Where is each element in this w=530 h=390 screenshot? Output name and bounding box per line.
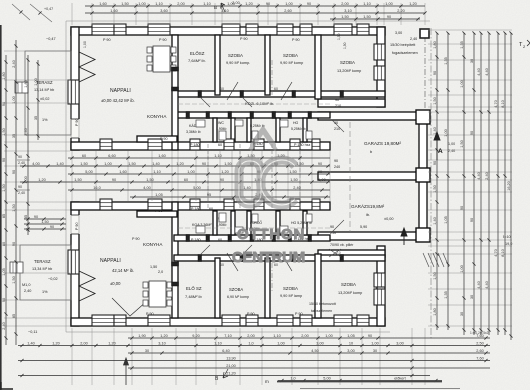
dimension column right 3 (463, 33, 465, 335)
svg-text:90: 90 (433, 71, 437, 75)
window leader upper szoba2 (281, 82, 292, 100)
svg-text:5,00: 5,00 (323, 376, 330, 380)
svg-text:fogadszelemen: fogadszelemen (392, 51, 418, 55)
svg-text:M1,0: M1,0 (22, 283, 30, 287)
svg-text:m: m (265, 379, 269, 384)
watermark house icon (250, 125, 276, 150)
svg-text:1,50: 1,50 (224, 162, 231, 166)
svg-text:90: 90 (2, 298, 6, 302)
svg-text:7,10: 7,10 (224, 334, 231, 338)
svg-text:2,00: 2,00 (232, 1, 239, 5)
projection lines bottom (71, 328, 73, 385)
svg-text:60: 60 (220, 87, 224, 91)
window top 8 (334, 24, 352, 35)
svg-text:P 180: P 180 (191, 238, 201, 242)
svg-text:2,40: 2,40 (485, 172, 489, 179)
svg-text:±0,00: ±0,00 (384, 217, 393, 221)
svg-text:90: 90 (112, 178, 116, 182)
lower kitchen closet wall (137, 211, 177, 217)
svg-text:2,40: 2,40 (24, 289, 31, 293)
corner marks top left (30, 4, 52, 22)
svg-text:KONYHA: KONYHA (143, 242, 163, 247)
svg-text:4,00: 4,00 (32, 162, 39, 166)
svg-text:1,50: 1,50 (460, 140, 464, 147)
svg-text:3,00: 3,00 (395, 31, 402, 35)
svg-text:90: 90 (330, 225, 334, 229)
dimension row top 3 (330, 18, 420, 20)
svg-text:30: 30 (145, 349, 149, 353)
dimension column right 6 (488, 33, 490, 335)
window top 9 (357, 24, 369, 35)
svg-text:ℓ=10: ℓ=10 (503, 235, 511, 239)
svg-text:−0,02: −0,02 (48, 277, 58, 281)
svg-text:előkert: előkert (394, 376, 406, 380)
window bottom 5 (246, 315, 258, 326)
lower bath wall c (247, 211, 251, 235)
svg-text:1,20: 1,20 (52, 341, 59, 345)
datum arrow bottom left (124, 358, 129, 385)
courtyard window upper c (190, 139, 200, 150)
svg-text:1,05: 1,05 (155, 193, 162, 197)
svg-text:P 180: P 180 (191, 207, 201, 211)
svg-text:30: 30 (470, 59, 474, 63)
svg-text:4,40: 4,40 (485, 281, 489, 288)
svg-text:P 180: P 180 (190, 143, 200, 147)
courtyard window upper f (290, 139, 300, 150)
svg-text:1,00: 1,00 (138, 2, 145, 6)
lower terrace outline (20, 245, 71, 300)
upper bath wall d (276, 118, 280, 142)
svg-text:1,00: 1,00 (34, 78, 38, 85)
window bottom 7 (300, 315, 312, 326)
svg-text:1,10: 1,10 (153, 170, 160, 174)
dimension column right 5 (480, 33, 482, 335)
svg-text:3,10: 3,10 (221, 9, 228, 13)
svg-text:4,40: 4,40 (477, 68, 481, 75)
lower corridor bottom wall (174, 255, 385, 261)
svg-text:1,20: 1,20 (176, 162, 183, 166)
svg-text:SZOBA: SZOBA (228, 53, 243, 58)
bathroom fixtures lower unit (196, 226, 205, 233)
column centerline upper szoba2 (271, 60, 273, 100)
svg-text:1,35: 1,35 (460, 41, 464, 48)
svg-text:1,40: 1,40 (243, 186, 250, 190)
svg-text:1,00: 1,00 (385, 2, 392, 6)
door swing corridor upper a (200, 97, 210, 107)
garage pilaster mid (416, 168, 430, 182)
garage axis dashed (349, 122, 351, 232)
svg-text:2,40: 2,40 (18, 161, 25, 165)
north wall lower unit (71, 202, 330, 210)
svg-text:NAPPALI: NAPPALI (100, 258, 121, 264)
svg-text:−0,11: −0,11 (28, 330, 37, 334)
svg-text:2,20: 2,20 (397, 9, 404, 13)
svg-text:2,00: 2,00 (341, 2, 348, 6)
svg-text:2,60: 2,60 (284, 9, 291, 13)
dimension row bottom 2 (18, 345, 490, 347)
svg-text:ELŐSZ: ELŐSZ (190, 51, 205, 56)
upper row wall szoba2/szoba3 (315, 35, 321, 99)
svg-text:90: 90 (368, 334, 372, 338)
svg-text:15/30 beépített: 15/30 beépített (390, 43, 416, 47)
left small dim row 2 (24, 223, 66, 225)
dimension column left 4 (37, 60, 39, 140)
svg-text:1,80: 1,80 (2, 72, 6, 79)
svg-text:60: 60 (218, 238, 222, 242)
svg-text:15/30 betonozott: 15/30 betonozott (309, 302, 336, 306)
svg-text:1,40: 1,40 (56, 162, 63, 166)
svg-text:±0,00 42,42 M² ib.: ±0,00 42,42 M² ib. (101, 98, 135, 103)
outer left wall lower unit (71, 202, 79, 326)
dining table upper nappali (153, 46, 170, 72)
window right lower szoba b (374, 289, 385, 305)
svg-text:1,40: 1,40 (152, 162, 159, 166)
courtyard window lower a (100, 199, 112, 210)
outer bottom wall (71, 318, 385, 326)
garage party wall (318, 172, 427, 180)
svg-text:13,14 M² hb: 13,14 M² hb (34, 88, 54, 92)
svg-text:3,00: 3,00 (347, 349, 354, 353)
svg-text:SZOBA: SZOBA (229, 287, 243, 292)
svg-text:1,90: 1,90 (138, 334, 145, 338)
svg-text:16,20: 16,20 (507, 181, 511, 191)
svg-text:2,0: 2,0 (336, 251, 341, 255)
courtyard window lower e (254, 199, 264, 210)
dimension column right 1 (436, 33, 438, 330)
upper bath wall c (247, 118, 251, 142)
svg-text:1,50: 1,50 (363, 15, 370, 19)
svg-text:1,10: 1,10 (363, 2, 370, 6)
garage pilaster bottom (416, 228, 430, 242)
svg-text:4,40: 4,40 (485, 68, 489, 75)
svg-text:60: 60 (82, 154, 86, 158)
scan edge left (0, 25, 2, 390)
centerline b (239, 144, 241, 208)
plot line right (424, 36, 426, 112)
svg-text:1,10: 1,10 (203, 2, 210, 6)
window top 4 (222, 24, 240, 35)
svg-text:1,50: 1,50 (2, 128, 6, 135)
left small dim row 1 (24, 218, 66, 220)
svg-text:1,50: 1,50 (341, 15, 348, 19)
courtyard window lower f (290, 199, 300, 210)
svg-text:85: 85 (12, 314, 16, 318)
corner mark bottom left (1, 382, 13, 389)
window leader upper szoba1 (227, 82, 238, 100)
garage right wall (419, 112, 427, 240)
svg-text:1 m0,2m 5x2: 1 m0,2m 5x2 (470, 331, 489, 335)
svg-text:80: 80 (2, 242, 6, 246)
svg-text:1,50: 1,50 (80, 162, 87, 166)
svg-text:21,00: 21,00 (226, 364, 236, 368)
svg-text:3,00: 3,00 (396, 341, 403, 345)
svg-text:2,40: 2,40 (2, 322, 6, 329)
door swing corridor lower a (200, 245, 210, 255)
svg-text:1,50: 1,50 (433, 97, 437, 104)
upper terrace step (15, 82, 28, 93)
svg-text:90: 90 (335, 98, 339, 102)
svg-text:1,50: 1,50 (433, 272, 437, 279)
lower bath wall b (231, 211, 235, 235)
bathroom fixtures upper unit (196, 120, 205, 127)
svg-text:P 90: P 90 (160, 137, 168, 141)
svg-text:90: 90 (433, 161, 437, 165)
door jambs upper corridor wall (186, 112, 190, 119)
folding door upper terrace (79, 52, 95, 82)
svg-text:42,14 M² ib.: 42,14 M² ib. (112, 268, 134, 273)
entrance steps hatch right (423, 253, 429, 267)
dimension row bottom 4 (18, 360, 490, 362)
window top 1 (92, 24, 114, 35)
svg-text:P 90: P 90 (75, 118, 79, 126)
svg-text:1,50: 1,50 (2, 184, 6, 191)
dimension row bottom 1 (128, 337, 490, 339)
garage door swing lower (332, 220, 344, 232)
lower row wall 3 (315, 254, 321, 318)
svg-text:SZOBA: SZOBA (283, 53, 298, 58)
svg-text:90: 90 (2, 158, 6, 162)
svg-text:1,20: 1,20 (108, 341, 115, 345)
dimension row top 1 (85, 5, 425, 7)
svg-text:2,00: 2,00 (247, 334, 254, 338)
svg-text:TERASZ: TERASZ (36, 80, 53, 85)
svg-text:1,80: 1,80 (433, 41, 437, 48)
svg-text:3,60: 3,60 (160, 9, 167, 13)
svg-text:2,60: 2,60 (476, 349, 483, 353)
window top 6 (277, 24, 293, 35)
courtyard window lower d (224, 199, 234, 210)
svg-text:90: 90 (318, 162, 322, 166)
svg-text:1,0: 1,0 (290, 376, 295, 380)
lower nappali right wall (172, 202, 178, 318)
plot corner marker (420, 29, 429, 38)
centerline d (299, 144, 301, 208)
courtyard window lower b (148, 199, 162, 210)
svg-text:4,70: 4,70 (494, 100, 498, 107)
svg-text:9,90 M² komp: 9,90 M² komp (280, 61, 303, 65)
svg-text:5,00: 5,00 (193, 186, 200, 190)
right wall lower szoba (377, 246, 385, 326)
lower corridor top wall (174, 235, 330, 241)
svg-text:KÁD: KÁD (189, 124, 197, 128)
svg-text:9,20: 9,20 (192, 334, 199, 338)
centerline c (271, 144, 273, 208)
window right upper szoba b (374, 66, 385, 80)
dimension row bottom 5 (128, 367, 490, 369)
lower bath wall d (276, 211, 280, 235)
svg-text:3,10: 3,10 (344, 9, 351, 13)
svg-text:1,05: 1,05 (347, 334, 354, 338)
door opening left wall lower (70, 215, 80, 234)
dimension row middle 3 (68, 173, 330, 175)
svg-text:9,90 M² komp.: 9,90 M² komp. (226, 61, 250, 65)
svg-text:1,50: 1,50 (12, 204, 16, 211)
svg-text:35: 35 (24, 215, 28, 219)
svg-text:90: 90 (470, 218, 474, 222)
svg-text:6,90 M² komp: 6,90 M² komp (227, 295, 249, 299)
svg-text:1,0: 1,0 (248, 341, 253, 345)
svg-text:210: 210 (330, 231, 336, 235)
svg-text:2,40: 2,40 (18, 191, 25, 195)
svg-text:2,50: 2,50 (476, 341, 483, 345)
lower row wall 2 (265, 258, 270, 318)
svg-text:1,40: 1,40 (433, 217, 437, 224)
svg-text:7,64M² ib.: 7,64M² ib. (188, 58, 206, 63)
svg-text:1,00: 1,00 (277, 341, 284, 345)
svg-text:1,05: 1,05 (444, 216, 448, 223)
svg-text:1,00: 1,00 (448, 142, 455, 146)
property dash-dot line right (430, 28, 432, 340)
svg-text:1,00: 1,00 (83, 41, 87, 48)
eaves line left (65, 21, 67, 332)
dimension row bottom 6 (18, 375, 430, 377)
eaves line top (66, 20, 430, 22)
dimension row middle 6 (130, 196, 330, 198)
svg-text:2,00: 2,00 (301, 334, 308, 338)
upper corridor bottom wall (174, 112, 330, 118)
courtyard window upper e (254, 139, 264, 150)
svg-text:1,60: 1,60 (119, 170, 126, 174)
svg-text:1,90M²: 1,90M² (216, 223, 227, 227)
svg-text:P 90: P 90 (247, 312, 255, 316)
upper terrace outline (25, 51, 71, 135)
svg-text:1,20: 1,20 (221, 170, 228, 174)
svg-text:70/90 vb. pillér: 70/90 vb. pillér (330, 243, 354, 247)
svg-text:1,00: 1,00 (318, 178, 325, 182)
upper nappali right wall (172, 35, 178, 150)
watermark OC letters (239, 160, 295, 205)
svg-text:P 90: P 90 (75, 222, 79, 230)
svg-text:SZOBA: SZOBA (341, 282, 356, 287)
svg-text:talpszelemen: talpszelemen (311, 309, 332, 313)
svg-text:90: 90 (318, 170, 322, 174)
svg-text:60: 60 (274, 87, 278, 91)
outer left wall upper unit (71, 27, 79, 150)
svg-text:6,40: 6,40 (222, 349, 229, 353)
svg-text:1,00: 1,00 (371, 341, 378, 345)
upper bath wall b (231, 118, 235, 142)
svg-text:B: B (214, 5, 217, 10)
svg-text:TERASZ: TERASZ (34, 259, 51, 264)
svg-text:10: 10 (349, 341, 353, 345)
svg-text:1,50: 1,50 (289, 170, 296, 174)
svg-text:1,00: 1,00 (12, 96, 16, 103)
dimension row middle 1 (68, 157, 330, 159)
svg-text:1,90M²: 1,90M² (216, 127, 227, 131)
dimension column right 7 (497, 33, 499, 335)
svg-text:90: 90 (470, 131, 474, 135)
svg-text:13,20M² komp: 13,20M² komp (337, 69, 361, 73)
svg-text:90: 90 (307, 2, 311, 6)
svg-text:13,90: 13,90 (226, 356, 236, 360)
corridor dashed line lower (178, 227, 330, 229)
svg-text:P 90: P 90 (159, 38, 167, 42)
svg-text:1,60: 1,60 (110, 9, 117, 13)
svg-text:16,0: 16,0 (93, 186, 100, 190)
upper bath wall a (213, 118, 217, 142)
section arrow lower (401, 228, 407, 245)
column centerline lower szoba2 (271, 253, 273, 293)
svg-text:ELŐ SZ: ELŐ SZ (186, 286, 202, 291)
svg-text:90: 90 (18, 185, 22, 189)
svg-text:90: 90 (2, 102, 6, 106)
svg-text:5,00: 5,00 (85, 170, 92, 174)
svg-text:7,48M² ib: 7,48M² ib (185, 294, 202, 299)
projection lines top (71, 3, 73, 25)
eaves line bottom (66, 331, 390, 333)
svg-text:1,50: 1,50 (128, 162, 135, 166)
svg-text:KÖZL 6,10M² ib.: KÖZL 6,10M² ib. (245, 101, 274, 106)
folding door lower terrace (79, 271, 95, 301)
svg-text:210: 210 (335, 104, 341, 108)
window right upper szoba a (374, 44, 385, 60)
door jambs upper nappali right wall (172, 67, 179, 71)
svg-text:3,10: 3,10 (158, 341, 165, 345)
garage bottom wall (318, 232, 427, 240)
svg-text:1,05: 1,05 (2, 268, 6, 275)
courtyard window upper g (312, 139, 320, 150)
svg-text:1,50: 1,50 (290, 178, 297, 182)
svg-text:P 90: P 90 (132, 237, 140, 241)
svg-text:2,40: 2,40 (12, 60, 16, 67)
svg-text:60: 60 (209, 207, 213, 211)
outer top wall (71, 27, 385, 35)
dimension column right 8 (504, 33, 506, 335)
upper szoba3 bottom wall (318, 99, 385, 107)
door swing corridor upper b (242, 97, 252, 107)
svg-text:30: 30 (373, 349, 377, 353)
garage door swing upper (332, 120, 344, 132)
lower bath wall e (303, 211, 307, 235)
svg-text:35: 35 (12, 134, 16, 138)
svg-text:21,20: 21,20 (226, 371, 236, 375)
svg-text:13,34 M² hb: 13,34 M² hb (32, 267, 52, 271)
courtyard window upper d (224, 139, 234, 150)
window left lower unit (68, 250, 79, 274)
svg-text:1,50: 1,50 (337, 33, 341, 40)
svg-text:1,20: 1,20 (160, 334, 167, 338)
svg-text:P 90: P 90 (155, 209, 163, 213)
right wall upper szoba (377, 27, 385, 107)
svg-text:4,50: 4,50 (311, 349, 318, 353)
window bottom 9 (357, 315, 369, 326)
svg-text:P 90: P 90 (146, 312, 154, 316)
svg-text:1,00: 1,00 (460, 80, 464, 87)
svg-text:OTTHON: OTTHON (237, 226, 305, 243)
svg-text:2,40: 2,40 (24, 128, 28, 135)
dimension row top 2 (85, 12, 425, 14)
svg-text:1,00: 1,00 (325, 334, 332, 338)
scan edge bottom (300, 388, 460, 390)
svg-text:1,50: 1,50 (433, 185, 437, 192)
dimension column left 3 (27, 55, 29, 235)
svg-text:1,50: 1,50 (150, 265, 157, 269)
svg-text:1,50: 1,50 (41, 220, 48, 224)
svg-text:1,35: 1,35 (444, 57, 448, 64)
svg-text:1,50: 1,50 (12, 276, 16, 283)
dimension column right 2 (447, 33, 449, 330)
upper row wall eloszoba/szoba (215, 35, 220, 95)
svg-text:1,20: 1,20 (245, 2, 252, 6)
svg-text:60: 60 (218, 143, 222, 147)
centerline a (207, 144, 209, 208)
svg-text:±0,02: ±0,02 (40, 97, 49, 101)
svg-text:1,40: 1,40 (27, 341, 34, 345)
window top 3 (148, 24, 170, 35)
door jambs lower corridor wall (186, 235, 190, 242)
svg-text:P 90: P 90 (103, 38, 111, 42)
svg-text:P 90: P 90 (292, 38, 300, 42)
